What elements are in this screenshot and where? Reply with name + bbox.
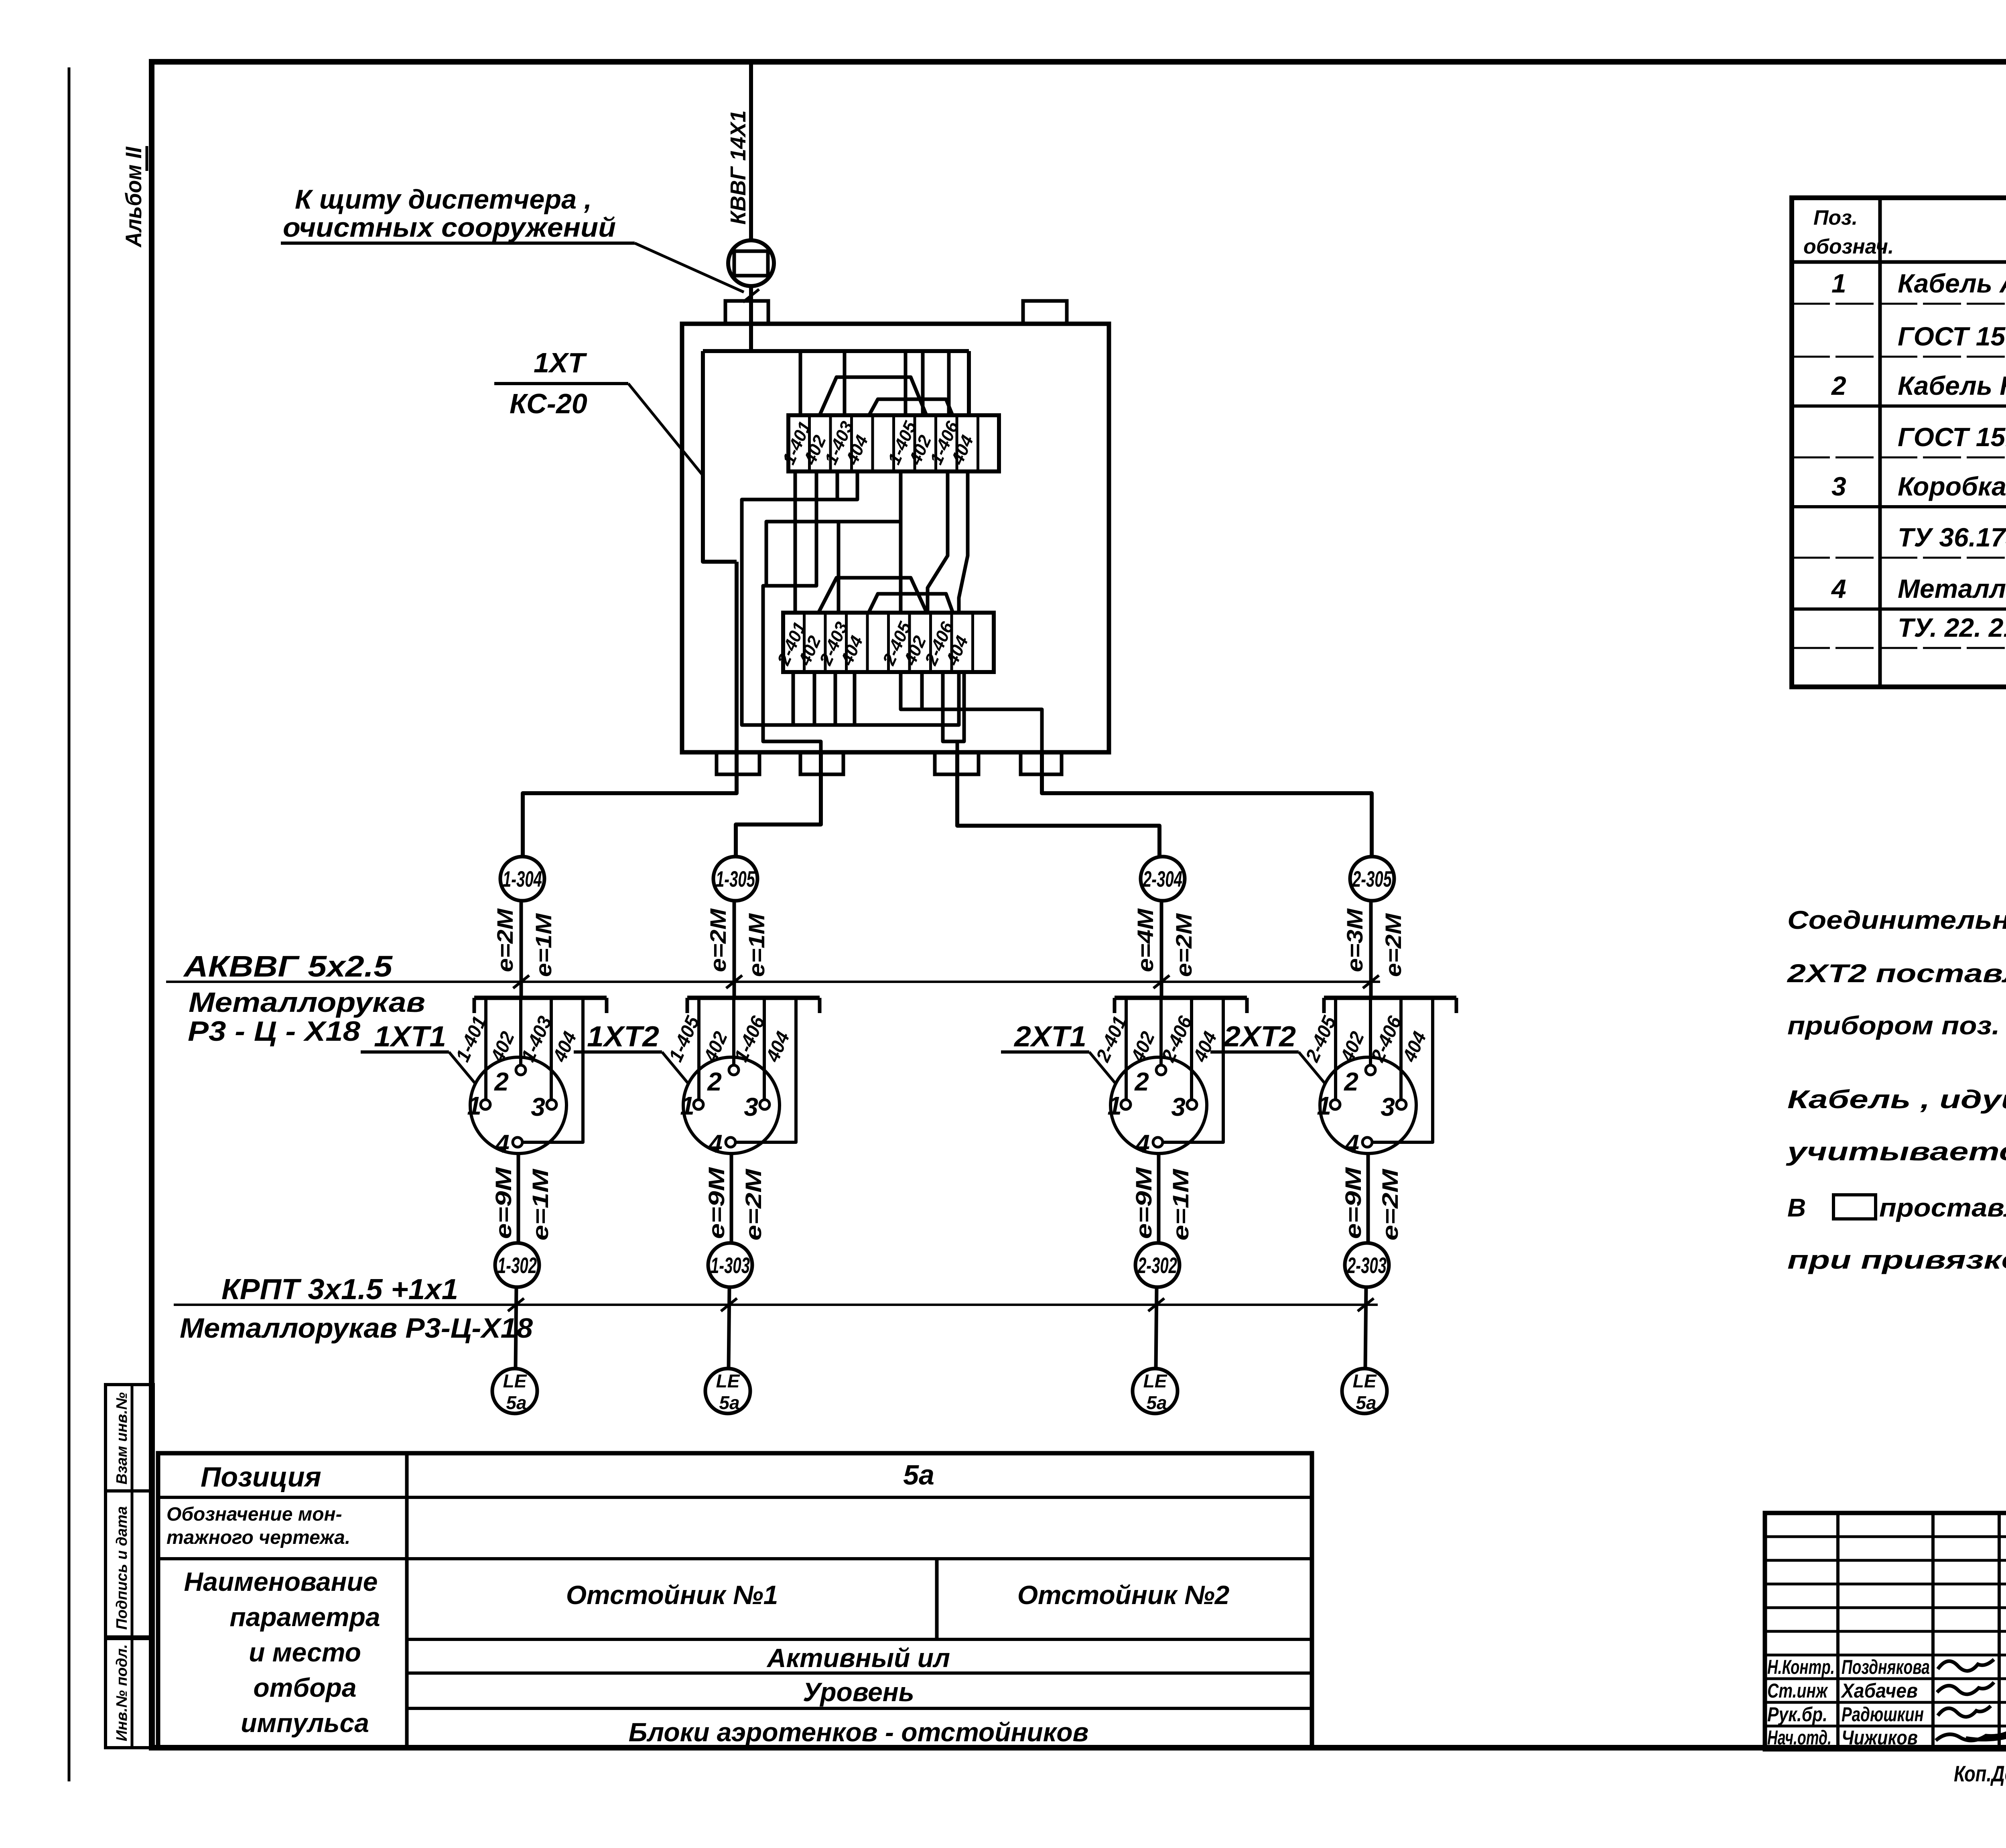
svg-text:e=9М: e=9М xyxy=(704,1167,729,1239)
svg-text:3: 3 xyxy=(531,1093,545,1121)
svg-text:LE: LE xyxy=(716,1371,740,1391)
wire 1-304 down to strip xyxy=(520,901,523,998)
svg-text:e=1М: e=1М xyxy=(744,913,769,977)
wire 2-302 down to LE xyxy=(1156,1287,1157,1368)
svg-text:2: 2 xyxy=(494,1067,509,1096)
svg-text:2-303: 2-303 xyxy=(1347,1253,1387,1278)
svg-text:1-305: 1-305 xyxy=(716,866,755,892)
wire 1ХТ2 down to 1-303 xyxy=(730,1153,733,1243)
node 2-305 cable circle xyxy=(1350,857,1394,901)
svg-text:Н.Контр.: Н.Контр. xyxy=(1767,1656,1835,1678)
wire: inner loop left side xyxy=(703,351,737,562)
svg-text:КРПТ 3х1.5 +1х1: КРПТ 3х1.5 +1х1 xyxy=(221,1273,458,1306)
wire diagonal 1 to lower strip xyxy=(928,471,948,613)
svg-text:обознач.: обознач. xyxy=(1803,235,1894,258)
svg-text:e=2М: e=2М xyxy=(741,1168,766,1241)
svg-text:2ХТ2 поставляются в комп: 2ХТ2 поставляются в комплекте с xyxy=(1787,959,2006,988)
node 1-305 cable circle xyxy=(713,857,757,901)
svg-text:В: В xyxy=(1787,1193,1806,1222)
svg-text:1: 1 xyxy=(1107,1091,1122,1120)
svg-text:1: 1 xyxy=(1317,1091,1331,1120)
leader from KC-20 label to box xyxy=(628,384,703,475)
svg-text:LE: LE xyxy=(1143,1371,1167,1391)
svg-text:Металлорукав Р3-Ц-Х18: Металлорукав Р3-Ц-Х18 xyxy=(180,1312,533,1344)
sheet edge line left xyxy=(68,67,71,1781)
wire 2ХТ1 down to 2-302 xyxy=(1157,1153,1161,1243)
instrument 2ХТ1 body circle xyxy=(1111,1057,1207,1153)
instrument 1ХТ1 local terminal comb xyxy=(474,996,607,1000)
level sensor LE 5a (1ХТ2) xyxy=(705,1369,750,1413)
instrument 2ХТ2 body circle xyxy=(1320,1057,1416,1153)
svg-text:Хабачев: Хабачев xyxy=(1840,1679,1918,1702)
leader to cable symbol xyxy=(635,243,744,292)
junction box 1XT KC-20 outer body xyxy=(682,324,1109,752)
svg-text:5а: 5а xyxy=(1146,1392,1167,1413)
level sensor LE 5a (2ХТ2) xyxy=(1342,1369,1387,1413)
wire cell1 upper to lower strip xyxy=(794,471,797,613)
svg-text:Рук.бр.: Рук.бр. xyxy=(1767,1703,1827,1726)
svg-text:5а: 5а xyxy=(506,1392,526,1413)
svg-text:4: 4 xyxy=(1831,574,1846,603)
instrument 2ХТ2 local terminal comb xyxy=(1324,996,1456,1000)
terminal 2 xyxy=(1156,1065,1166,1075)
spec table frame xyxy=(1792,198,2006,687)
svg-text:2-305: 2-305 xyxy=(1352,866,1392,892)
svg-text:1: 1 xyxy=(680,1091,694,1120)
svg-text:1ХТ: 1ХТ xyxy=(534,347,587,378)
wire feeder F3 to circle 2-304 xyxy=(957,752,1159,857)
top stub 1 xyxy=(725,301,768,324)
wire below cable symbol xyxy=(749,286,753,353)
svg-text:e=1М: e=1М xyxy=(531,913,556,977)
svg-text:и место: и место xyxy=(249,1637,361,1667)
cable run AKVVG 5x2.5 bus line xyxy=(166,981,1380,983)
wire cell6 upper to lower strip xyxy=(899,471,903,613)
svg-text:Коробка соединительная КС-20: Коробка соединительная КС-20 xyxy=(1898,471,2006,501)
wire route left Z xyxy=(742,471,857,725)
wire feeder F4 to circle 2-305 xyxy=(1042,752,1372,857)
svg-text:Кабель АКВВГ 5 х 2.5: Кабель АКВВГ 5 х 2.5 xyxy=(1898,268,2006,298)
svg-text:1: 1 xyxy=(467,1091,481,1120)
svg-text:ГОСТ 15154 -75: ГОСТ 15154 -75 xyxy=(1898,422,2006,452)
terminal 4 xyxy=(1362,1137,1372,1147)
wire 2-303 down to LE xyxy=(1365,1287,1366,1368)
wire 1-303 down to LE xyxy=(729,1287,729,1368)
svg-text:e=9М: e=9М xyxy=(491,1167,516,1239)
wire 2ХТ2 down to 2-303 xyxy=(1366,1153,1370,1243)
svg-text:Р3 - Ц - Х18: Р3 - Ц - Х18 xyxy=(188,1015,360,1047)
svg-text:5а: 5а xyxy=(903,1459,934,1491)
wire terminal 4 bracket xyxy=(522,998,583,1142)
svg-text:ГОСТ 1508 -75: ГОСТ 1508 -75 xyxy=(1898,321,2006,351)
wire drops to upper terminal strip xyxy=(799,351,802,416)
svg-text:КВВГ 14Х1: КВВГ 14Х1 xyxy=(726,110,750,225)
terminal 1 xyxy=(1330,1100,1340,1109)
svg-text:4: 4 xyxy=(707,1129,723,1158)
svg-text:К щиту диспетчера ,: К щиту диспетчера , xyxy=(295,184,592,215)
svg-text:Блоки аэротенков - отстойнико: Блоки аэротенков - отстойников xyxy=(629,1717,1089,1747)
svg-text:e=1М: e=1М xyxy=(1168,1168,1193,1241)
jumper B upper strip xyxy=(869,399,953,416)
svg-text:1ХТ1: 1ХТ1 xyxy=(374,1021,446,1053)
svg-text:Активный ил: Активный ил xyxy=(766,1643,950,1673)
signatures squiggles xyxy=(1938,1659,1994,1671)
svg-text:3: 3 xyxy=(1171,1093,1186,1121)
svg-text:тажного чертежа.: тажного чертежа. xyxy=(166,1527,350,1548)
position table xyxy=(158,1453,1312,1747)
terminal 4 xyxy=(1153,1137,1163,1147)
title block outline xyxy=(1765,1513,2006,1749)
svg-text:Кабель КРПТ 3 х1.5 +1х: Кабель КРПТ 3 х1.5 +1х1 xyxy=(1898,371,2006,400)
bottom stub 3 xyxy=(935,752,979,774)
svg-text:2-302: 2-302 xyxy=(1137,1253,1177,1278)
svg-text:1-302: 1-302 xyxy=(497,1253,537,1278)
node 1-304 cable circle xyxy=(500,857,544,901)
svg-text:Ст.инж: Ст.инж xyxy=(1767,1679,1828,1702)
wire terminal 4 bracket xyxy=(1163,998,1223,1142)
wire route H2 xyxy=(766,522,900,586)
svg-text:e=2М: e=2М xyxy=(1171,913,1196,977)
svg-text:5а: 5а xyxy=(719,1392,739,1413)
svg-text:LE: LE xyxy=(1353,1371,1377,1391)
svg-text:Уровень: Уровень xyxy=(803,1677,914,1707)
jumper A lower strip xyxy=(818,578,927,613)
svg-text:Наименование: Наименование xyxy=(184,1567,378,1596)
svg-text:1-303: 1-303 xyxy=(711,1253,750,1278)
wire: inner cable loop top xyxy=(703,349,969,353)
wire route F2 inside box xyxy=(763,471,821,752)
bottom stub 4 xyxy=(1021,752,1062,774)
svg-text:очистных сооружений: очистных сооружений xyxy=(283,212,616,243)
svg-text:e=9М: e=9М xyxy=(1340,1167,1366,1239)
terminal 2 xyxy=(1366,1065,1375,1075)
svg-text:Позднякова: Позднякова xyxy=(1842,1656,1930,1678)
bottom stub 1 xyxy=(717,752,759,774)
svg-text:Альбом II: Альбом II xyxy=(121,146,146,248)
terminal 2 xyxy=(516,1065,526,1075)
terminal 3 xyxy=(547,1100,556,1109)
instrument 1ХТ1 body circle xyxy=(470,1057,566,1153)
sidebar stamp boxes xyxy=(106,1385,153,1491)
svg-text:Обозначение мон-: Обозначение мон- xyxy=(166,1504,342,1525)
terminal 3 xyxy=(1187,1100,1197,1109)
svg-text:2ХТ1: 2ХТ1 xyxy=(1013,1021,1086,1053)
svg-text:Взам инв.№: Взам инв.№ xyxy=(114,1392,130,1484)
level sensor LE 5a (1ХТ1) xyxy=(492,1369,537,1413)
svg-text:e=2М: e=2М xyxy=(705,908,731,972)
wires lower strip right group xyxy=(920,672,924,709)
svg-text:e=9М: e=9М xyxy=(1131,1167,1156,1239)
svg-text:отбора: отбора xyxy=(253,1673,356,1702)
svg-text:e=1М: e=1М xyxy=(528,1168,553,1241)
svg-text:2: 2 xyxy=(1344,1067,1358,1096)
wire drop to lower strip xyxy=(837,522,841,613)
svg-text:КС-20: КС-20 xyxy=(510,388,587,419)
svg-text:Позиция: Позиция xyxy=(201,1461,321,1493)
wire stub cell3 xyxy=(836,471,839,500)
wire bottom H3 run xyxy=(791,672,959,725)
node 2-304 cable circle xyxy=(1141,857,1185,901)
svg-text:2-304: 2-304 xyxy=(1143,866,1182,892)
svg-text:2ХТ2: 2ХТ2 xyxy=(1223,1021,1296,1053)
terminal strip XT1 (upper) in box xyxy=(788,415,999,471)
svg-text:1-304: 1-304 xyxy=(503,866,542,892)
wire route F3 inside box xyxy=(943,672,964,752)
svg-text:Инв.№ подл.: Инв.№ подл. xyxy=(114,1644,130,1741)
svg-text:ТУ. 22. 2173 -71: ТУ. 22. 2173 -71 xyxy=(1898,613,2006,642)
terminal 3 xyxy=(1397,1100,1406,1109)
cable run KRPT bus line xyxy=(174,1304,1378,1306)
svg-text:2: 2 xyxy=(707,1067,722,1096)
instrument 1ХТ2 local terminal comb xyxy=(687,996,820,1000)
wire route F4 inside box xyxy=(901,672,1042,752)
svg-text:3: 3 xyxy=(1381,1093,1395,1121)
svg-text:Отстойник №1: Отстойник №1 xyxy=(566,1580,778,1610)
jumper A upper strip xyxy=(819,377,927,416)
svg-text:1: 1 xyxy=(1831,268,1846,298)
svg-text:1ХТ2: 1ХТ2 xyxy=(587,1021,659,1053)
svg-text:при привязке проекта.: при привязке проекта. xyxy=(1787,1245,2006,1274)
svg-text:e=4М: e=4М xyxy=(1133,908,1158,972)
wire 1ХТ1 down to 1-302 xyxy=(517,1153,520,1243)
svg-text:e=2М: e=2М xyxy=(492,908,518,972)
svg-text:Поз.: Поз. xyxy=(1813,206,1858,229)
wires lower strip left group xyxy=(792,672,795,725)
svg-text:4: 4 xyxy=(494,1129,510,1158)
svg-text:Коп.Доценко: Коп.Доценко xyxy=(1954,1761,2006,1786)
svg-text:LE: LE xyxy=(503,1371,527,1391)
svg-text:Кабель , идущий к щиту: Кабель , идущий к щиту диспетчера , xyxy=(1787,1085,2006,1114)
svg-text:Нач.отд.: Нач.отд. xyxy=(1767,1726,1831,1749)
wire diagonal 2 to lower strip xyxy=(959,471,968,613)
terminal 4 xyxy=(726,1137,735,1147)
terminal strip XT2 (lower) in box xyxy=(783,613,994,672)
instrument 2ХТ1 local terminal comb xyxy=(1115,996,1247,1000)
node 1-303 cable circle xyxy=(708,1243,752,1287)
node 2-303 cable circle xyxy=(1345,1243,1389,1287)
svg-text:проставляется номер кабел: проставляется номер кабеля xyxy=(1879,1193,2006,1222)
level sensor LE 5a (2ХТ1) xyxy=(1133,1369,1178,1413)
svg-text:2: 2 xyxy=(1134,1067,1149,1096)
wire 1-302 down to LE xyxy=(516,1287,516,1368)
svg-text:e=2М: e=2М xyxy=(1377,1168,1403,1241)
svg-text:АКВВГ 5х2.5: АКВВГ 5х2.5 xyxy=(183,950,393,983)
wire feeder F2 to circle 1-305 xyxy=(736,752,821,857)
wire 2-304 down to strip xyxy=(1160,901,1163,998)
instrument 1ХТ2 body circle xyxy=(683,1057,780,1153)
svg-text:Чижиков: Чижиков xyxy=(1842,1726,1918,1749)
wire 1-305 down to strip xyxy=(733,901,736,998)
svg-text:Подпись и дата: Подпись и дата xyxy=(114,1506,130,1630)
svg-text:Соединительные коробки: Соединительные коробки 1ХТ1 , 1ХТ2 , 2ХТ… xyxy=(1787,906,2006,934)
svg-text:учитывается в отдельном: учитывается в отдельном проекте. xyxy=(1786,1137,2006,1166)
svg-text:3: 3 xyxy=(744,1093,758,1121)
wire terminal 4 bracket xyxy=(1372,998,1433,1142)
terminal 2 xyxy=(729,1065,739,1075)
top stub 2 xyxy=(1023,301,1067,324)
svg-text:Металлорукав Р3 - Ц - Х18: Металлорукав Р3 - Ц - Х18 xyxy=(1898,574,2006,603)
jumper B lower strip xyxy=(869,594,953,613)
terminal 3 xyxy=(760,1100,770,1109)
svg-text:параметра: параметра xyxy=(229,1602,380,1632)
svg-text:Отстойник №2: Отстойник №2 xyxy=(1017,1580,1230,1610)
svg-text:прибором поз. 5: прибором поз. 5 xyxy=(1787,1011,2006,1040)
svg-text:Радюшкин: Радюшкин xyxy=(1842,1703,1924,1726)
wire terminal 4 bracket xyxy=(735,998,796,1142)
node 2-302 cable circle xyxy=(1135,1243,1180,1287)
svg-text:4: 4 xyxy=(1344,1129,1359,1158)
terminal 1 xyxy=(481,1100,490,1109)
wire: inner loop right drop xyxy=(967,351,971,416)
split line Otstoynik 1/2 xyxy=(935,1559,939,1639)
svg-text:e=2М: e=2М xyxy=(1381,913,1406,977)
svg-text:4: 4 xyxy=(1135,1129,1150,1158)
svg-text:e=3М: e=3М xyxy=(1342,908,1367,972)
svg-text:2: 2 xyxy=(1831,371,1846,400)
terminal 1 xyxy=(1121,1100,1131,1109)
terminal 1 xyxy=(694,1100,703,1109)
wire feeder F1 to circle 1-304 xyxy=(523,562,737,857)
cable KVVG 14x1 vertical wire xyxy=(749,64,753,241)
svg-text:Металлорукав: Металлорукав xyxy=(189,987,425,1018)
svg-text:импульса: импульса xyxy=(241,1708,369,1738)
terminal 4 xyxy=(513,1137,522,1147)
svg-text:3: 3 xyxy=(1831,471,1846,501)
cable entry symbol (circle with box) xyxy=(728,240,774,286)
bottom stub 2 xyxy=(800,752,843,774)
svg-text:5а: 5а xyxy=(1356,1392,1376,1413)
node 1-302 cable circle xyxy=(495,1243,539,1287)
cable-number box symbol in note xyxy=(1833,1195,1876,1219)
wire 2-305 down to strip xyxy=(1369,901,1373,998)
svg-text:ТУ 36.1753 -75: ТУ 36.1753 -75 xyxy=(1898,522,2006,552)
